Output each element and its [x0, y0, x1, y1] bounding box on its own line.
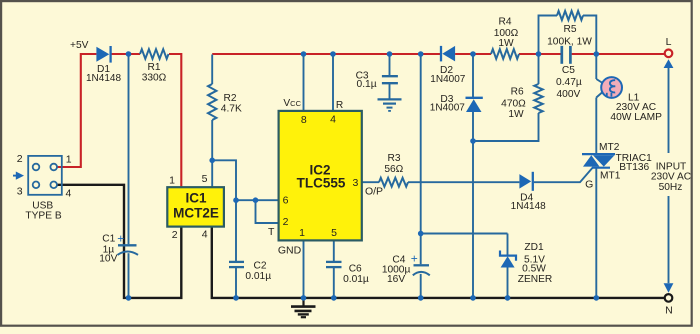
svg-text:R3: R3 — [387, 153, 400, 164]
svg-text:BT136: BT136 — [619, 162, 649, 173]
svg-text:O/P: O/P — [365, 186, 383, 198]
svg-text:ZD1: ZD1 — [524, 242, 544, 253]
svg-text:230V AC: 230V AC — [651, 172, 691, 183]
svg-text:C2: C2 — [254, 261, 267, 272]
svg-text:5: 5 — [331, 227, 337, 239]
svg-text:+: + — [117, 232, 124, 246]
svg-text:1N4148: 1N4148 — [86, 73, 121, 84]
svg-text:C1: C1 — [102, 234, 115, 245]
svg-text:100K, 1W: 100K, 1W — [547, 37, 592, 48]
svg-text:R: R — [336, 100, 343, 111]
svg-text:5: 5 — [202, 173, 208, 185]
svg-text:10V: 10V — [99, 253, 117, 264]
svg-text:MT1: MT1 — [600, 170, 621, 181]
svg-text:16V: 16V — [387, 274, 405, 285]
svg-text:L: L — [666, 36, 672, 48]
svg-text:IC1: IC1 — [185, 191, 207, 206]
svg-text:R2: R2 — [224, 93, 237, 104]
svg-text:40W LAMP: 40W LAMP — [610, 112, 662, 123]
svg-text:R6: R6 — [511, 87, 524, 98]
svg-text:56Ω: 56Ω — [384, 164, 403, 175]
svg-text:N: N — [665, 305, 673, 317]
svg-text:G: G — [585, 178, 593, 190]
svg-text:TYPE B: TYPE B — [25, 211, 61, 222]
svg-text:400V: 400V — [557, 89, 581, 100]
svg-text:1N4007: 1N4007 — [430, 74, 465, 85]
svg-text:1: 1 — [66, 153, 72, 165]
svg-text:R4: R4 — [498, 17, 511, 28]
svg-text:4.7K: 4.7K — [221, 103, 242, 114]
svg-text:MT2: MT2 — [599, 142, 620, 153]
svg-text:0.01µ: 0.01µ — [343, 274, 369, 285]
svg-text:R5: R5 — [563, 24, 576, 35]
svg-text:4: 4 — [330, 113, 336, 125]
svg-text:+: + — [411, 251, 418, 265]
svg-text:0.47µ: 0.47µ — [556, 77, 582, 88]
svg-text:C5: C5 — [562, 65, 575, 76]
svg-text:4: 4 — [65, 187, 71, 199]
svg-text:ZENER: ZENER — [518, 274, 553, 285]
svg-text:MCT2E: MCT2E — [173, 205, 219, 220]
svg-text:3: 3 — [17, 186, 23, 198]
svg-text:1W: 1W — [498, 38, 514, 49]
svg-text:470Ω: 470Ω — [501, 98, 526, 109]
svg-text:1N4148: 1N4148 — [511, 201, 546, 212]
svg-text:2: 2 — [172, 229, 178, 241]
svg-text:1N4007: 1N4007 — [430, 103, 465, 114]
svg-text:1W: 1W — [508, 109, 524, 120]
svg-text:1: 1 — [299, 227, 305, 239]
svg-text:4: 4 — [202, 229, 208, 241]
svg-text:TLC555: TLC555 — [297, 175, 346, 190]
svg-text:3: 3 — [352, 177, 358, 189]
svg-text:0.01µ: 0.01µ — [245, 271, 271, 282]
svg-text:+5V: +5V — [70, 40, 89, 51]
svg-text:330Ω: 330Ω — [142, 73, 167, 84]
svg-text:T: T — [268, 226, 275, 238]
svg-text:VCC: VCC — [283, 98, 301, 109]
svg-text:2: 2 — [283, 216, 289, 228]
svg-text:8: 8 — [301, 114, 307, 126]
svg-text:50Hz: 50Hz — [659, 182, 683, 193]
svg-text:6: 6 — [283, 195, 289, 207]
svg-text:R1: R1 — [147, 62, 160, 73]
svg-text:0.1µ: 0.1µ — [357, 79, 377, 90]
svg-text:1: 1 — [169, 174, 175, 186]
svg-text:GND: GND — [278, 245, 302, 257]
svg-text:2: 2 — [17, 153, 23, 165]
